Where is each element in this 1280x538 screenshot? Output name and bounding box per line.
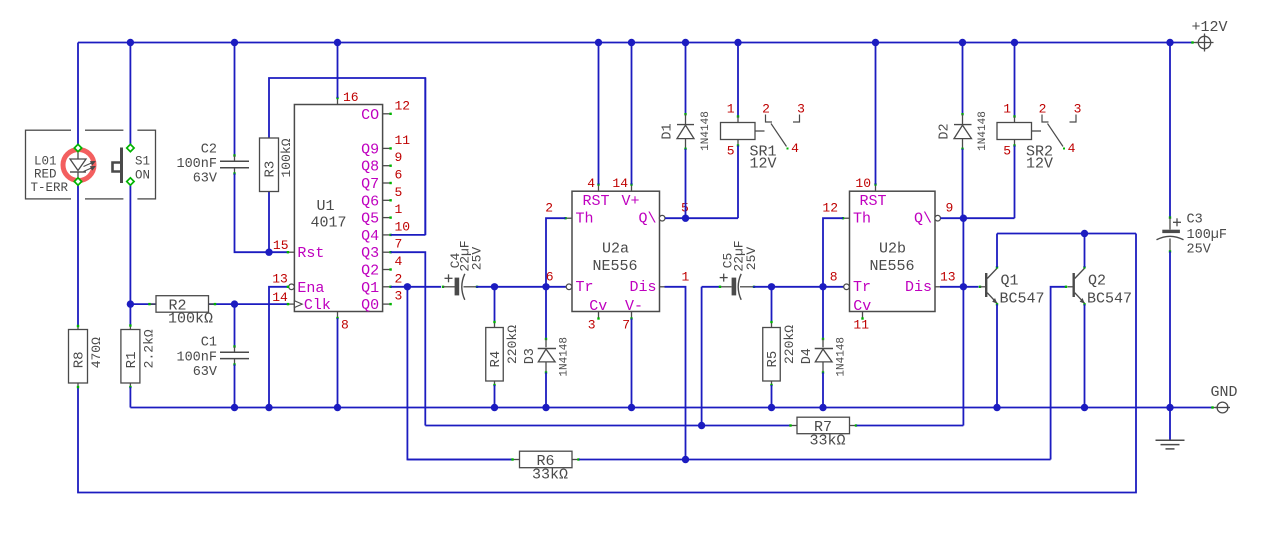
U1 pin 16 top [337, 98, 339, 105]
svg-text:Q\: Q\ [914, 210, 932, 227]
svg-text:1N4148: 1N4148 [836, 337, 848, 377]
svg-text:2: 2 [395, 271, 403, 286]
diode D2 [959, 39, 966, 46]
U2a pin 4 RST top [598, 185, 600, 192]
U2b pin 12 Th [843, 217, 850, 219]
svg-text:13: 13 [272, 272, 288, 287]
svg-text:D4: D4 [800, 348, 815, 364]
diode D3 [545, 287, 547, 339]
svg-text:RST: RST [860, 193, 887, 210]
svg-text:R8: R8 [72, 351, 88, 368]
svg-text:5: 5 [727, 144, 735, 159]
svg-text:GND: GND [1210, 384, 1237, 401]
svg-text:63V: 63V [193, 365, 218, 380]
svg-text:100µF: 100µF [1187, 228, 1228, 243]
U2b pin 10 RST top [875, 185, 877, 192]
svg-text:12V: 12V [750, 156, 777, 173]
wire Ena riser [269, 287, 289, 408]
svg-text:Dis: Dis [629, 279, 656, 296]
wire R7 right to X963 riser [857, 425, 964, 427]
connector block L01/S1 box [26, 130, 156, 199]
resistor R2 [150, 303, 157, 305]
U2a pin 5 Q\ with circle [659, 215, 665, 221]
relay coil SR2 [1011, 39, 1018, 46]
svg-text:R4: R4 [488, 351, 504, 368]
svg-text:15: 15 [273, 238, 289, 253]
wire U1 Q1 pin2 to C4 [391, 286, 441, 288]
svg-text:6: 6 [546, 269, 554, 284]
resistor R8 [77, 326, 79, 330]
U2b pin 11 Cv bottom [862, 312, 864, 319]
svg-text:RED: RED [34, 167, 57, 181]
svg-text:11: 11 [853, 318, 869, 333]
svg-text:Dis: Dis [905, 279, 932, 296]
svg-text:2: 2 [762, 102, 770, 117]
svg-text:D3: D3 [523, 348, 538, 364]
svg-text:Q3: Q3 [361, 245, 379, 262]
svg-text:33kΩ: 33kΩ [532, 467, 568, 484]
wire Dis U2a down to R6 net [665, 287, 686, 460]
wire collector top bar [997, 233, 1136, 235]
LED L01 red highlight ring [63, 150, 94, 181]
svg-text:12V: 12V [1026, 156, 1053, 173]
svg-text:6: 6 [395, 168, 403, 183]
svg-text:Q7: Q7 [361, 176, 379, 193]
svg-text:Q4: Q4 [361, 228, 379, 245]
svg-text:Q8: Q8 [361, 159, 379, 176]
svg-text:3: 3 [395, 289, 403, 304]
Ena pin with inverter circle [289, 284, 295, 290]
svg-text:T-ERR: T-ERR [31, 181, 69, 195]
wire rail to LED L01 [77, 43, 79, 147]
svg-text:14: 14 [612, 176, 628, 191]
svg-text:25V: 25V [1187, 243, 1212, 258]
svg-text:4: 4 [791, 141, 799, 156]
svg-text:U2a: U2a [602, 240, 629, 257]
svg-text:4: 4 [395, 254, 403, 269]
svg-text:R5: R5 [765, 351, 781, 368]
svg-text:12: 12 [822, 201, 838, 216]
svg-text:Q2: Q2 [361, 263, 379, 280]
svg-text:Q1: Q1 [361, 280, 379, 297]
bottom GND rail [130, 407, 1170, 409]
svg-text:V-: V- [625, 298, 643, 315]
C3 plus sign [1173, 221, 1181, 223]
wire Dis U2b to Q1 base [940, 286, 979, 288]
svg-text:Q9: Q9 [361, 141, 379, 158]
svg-text:16: 16 [343, 90, 359, 105]
Clk pin with clock triangle [294, 301, 302, 308]
U2a pin 1 Dis [660, 286, 665, 288]
svg-text:11: 11 [395, 133, 411, 148]
resistor R1 [129, 304, 131, 325]
svg-text:Cv: Cv [853, 298, 871, 315]
svg-text:7: 7 [395, 237, 403, 252]
svg-text:CO: CO [361, 107, 379, 124]
U1 right pins [383, 113, 391, 115]
svg-text:U2b: U2b [879, 240, 906, 257]
transistor Q2 [1068, 286, 1074, 288]
svg-text:470Ω: 470Ω [89, 337, 104, 368]
svg-text:3: 3 [1074, 102, 1082, 117]
svg-text:V+: V+ [622, 193, 640, 210]
svg-text:1: 1 [727, 102, 735, 117]
IC U1 4017 box [294, 105, 382, 312]
bottom return wire [78, 234, 1136, 493]
svg-text:+12V: +12V [1191, 19, 1227, 36]
svg-text:33kΩ: 33kΩ [809, 433, 845, 450]
wire Q1 collector up [996, 234, 998, 268]
svg-text:1: 1 [395, 202, 403, 217]
power terminal +12V [1196, 34, 1214, 52]
svg-text:220kΩ: 220kΩ [782, 325, 797, 364]
wire Q2 base riser from R6 [1051, 287, 1067, 460]
IC U2a NE556 box [572, 191, 660, 311]
svg-text:1: 1 [1003, 102, 1011, 117]
wire +12V top rail [78, 42, 1170, 44]
LED emission arrows [84, 162, 95, 172]
U2a pin 3 Cv bottom [598, 312, 600, 319]
svg-text:Clk: Clk [304, 297, 331, 314]
svg-text:NE556: NE556 [869, 258, 914, 275]
svg-text:R1: R1 [124, 351, 140, 368]
svg-text:S1: S1 [135, 155, 150, 169]
resistor R7 [425, 425, 790, 427]
wire rail to GND terminal [1170, 407, 1212, 409]
svg-text:5: 5 [395, 185, 403, 200]
svg-text:Q5: Q5 [361, 211, 379, 228]
wire Q2 emitter down [1084, 304, 1086, 407]
svg-text:Th: Th [576, 210, 594, 227]
svg-text:Q6: Q6 [361, 193, 379, 210]
svg-text:3: 3 [797, 102, 805, 117]
svg-text:100nF: 100nF [176, 351, 217, 366]
U1 left pins Rst Ena Clk [288, 251, 295, 253]
U2a pin 14 V+ top [631, 185, 633, 192]
svg-text:C3: C3 [1187, 213, 1203, 228]
wire Th U2b down to Tr node [823, 218, 843, 287]
capacitor C4 polarized [442, 286, 444, 288]
svg-text:Q0: Q0 [361, 297, 379, 314]
U2a pin 2 Th [566, 217, 573, 219]
svg-text:ON: ON [135, 169, 150, 183]
C4 plus sign [445, 277, 453, 279]
svg-text:1: 1 [682, 269, 690, 284]
wire SR2 pin5 down to Q\ wire [1014, 146, 1016, 219]
U2b pin 8 Tr with circle [844, 284, 850, 290]
svg-text:7: 7 [622, 318, 630, 333]
wire LED to R8 [77, 184, 79, 327]
svg-text:RST: RST [583, 193, 610, 210]
U2a pin 7 V- bottom [631, 312, 633, 319]
wire Q1 emitter down [996, 304, 998, 407]
svg-text:9: 9 [395, 150, 403, 165]
U1 pin 8 bottom [337, 312, 339, 319]
diode D4 [822, 287, 824, 339]
capacitor C2 [231, 39, 238, 46]
svg-text:8: 8 [830, 269, 838, 284]
svg-text:D2: D2 [937, 123, 952, 139]
svg-text:100kΩ: 100kΩ [279, 138, 294, 177]
svg-text:25V: 25V [469, 247, 484, 271]
svg-text:Th: Th [853, 210, 871, 227]
svg-text:5: 5 [1003, 144, 1011, 159]
resistor R4 [494, 287, 496, 322]
svg-text:U1: U1 [316, 198, 334, 215]
svg-text:1N4148: 1N4148 [977, 111, 989, 151]
svg-text:220kΩ: 220kΩ [505, 325, 520, 364]
svg-text:Tr: Tr [576, 279, 594, 296]
wire Q1J down to R6 [407, 287, 512, 460]
svg-text:14: 14 [272, 290, 288, 305]
wire Tr node U2a [491, 283, 498, 290]
IC U2b NE556 box [850, 191, 936, 311]
svg-text:12: 12 [395, 98, 411, 113]
relay coil SR1 [734, 39, 741, 46]
svg-text:3: 3 [588, 318, 596, 333]
svg-text:63V: 63V [193, 172, 218, 187]
wire SR1 pin5 down to Q\ wire [737, 146, 739, 219]
svg-text:1N4148: 1N4148 [700, 111, 712, 151]
resistor R6 [407, 459, 512, 461]
svg-text:L01: L01 [34, 154, 57, 168]
U2b pin 9 Q\ with circle [935, 215, 941, 221]
svg-text:2.2kΩ: 2.2kΩ [141, 329, 156, 368]
svg-text:2: 2 [545, 201, 553, 216]
wire C2 to Rst [235, 174, 289, 253]
svg-text:100kΩ: 100kΩ [168, 311, 213, 328]
wire U1 Q3 pin7 riser down [391, 252, 426, 425]
svg-text:C1: C1 [201, 336, 217, 351]
wire Tr node U2b [768, 283, 775, 290]
svg-text:2: 2 [1039, 102, 1047, 117]
wire R6 right to Q2 base riser [579, 459, 1051, 461]
svg-text:4017: 4017 [310, 215, 346, 232]
wire Q\ U2b to SR2 [941, 217, 1015, 219]
diode D1 [682, 39, 689, 46]
svg-text:Q1: Q1 [1001, 273, 1019, 290]
switch S1 symbol [120, 148, 123, 184]
wire R2 to Clk [130, 303, 288, 305]
transistor Q1 [979, 286, 981, 288]
svg-text:25V: 25V [744, 247, 759, 271]
C5 plus sign [720, 277, 728, 279]
svg-text:Ena: Ena [297, 280, 324, 297]
U2a pin 6 Tr with circle [566, 284, 572, 290]
svg-text:4: 4 [587, 176, 595, 191]
earth symbol [1169, 408, 1171, 440]
svg-text:13: 13 [940, 269, 956, 284]
svg-text:10: 10 [395, 219, 411, 234]
wire X963 vertical Qbar to R7 [962, 218, 964, 425]
svg-text:Q2: Q2 [1088, 273, 1106, 290]
svg-text:Tr: Tr [853, 279, 871, 296]
svg-text:C2: C2 [201, 143, 217, 158]
wire R3 top to Q4 loop [269, 78, 425, 235]
wire U1 Q4 pin10 loop top [391, 234, 426, 236]
wire Q\ U2a to SR1 [665, 217, 738, 219]
capacitor C3 polarized [1169, 43, 1171, 218]
ground terminal GND [1215, 402, 1230, 413]
svg-text:NE556: NE556 [592, 258, 637, 275]
terminal diamonds L01 [74, 144, 81, 151]
resistor R3 [268, 192, 270, 252]
wire S1 down to R1/R2 node [129, 184, 131, 305]
wire Th U2a down to Tr node [546, 218, 566, 287]
wire top rail to +12V terminal [1166, 39, 1173, 46]
svg-text:BC547: BC547 [1000, 290, 1045, 307]
svg-text:D1: D1 [660, 123, 675, 139]
wire Q2 collector up [1084, 234, 1086, 268]
svg-text:9: 9 [946, 201, 954, 216]
svg-text:R3: R3 [263, 161, 279, 178]
svg-text:1N4148: 1N4148 [559, 337, 571, 377]
capacitor C1 [234, 304, 236, 346]
svg-text:10: 10 [855, 176, 871, 191]
svg-text:Rst: Rst [297, 245, 324, 262]
LED L01 symbol [77, 148, 79, 159]
svg-text:Cv: Cv [589, 298, 607, 315]
svg-text:100nF: 100nF [176, 157, 217, 172]
svg-text:8: 8 [341, 318, 349, 333]
svg-text:BC547: BC547 [1087, 290, 1132, 307]
U2b pin 13 Dis [935, 286, 940, 288]
capacitor C5 polarized [701, 287, 703, 426]
svg-text:4: 4 [1068, 141, 1076, 156]
resistor R5 [771, 287, 773, 322]
wire rail to switch S1 [127, 39, 134, 46]
svg-text:Q\: Q\ [638, 210, 656, 227]
